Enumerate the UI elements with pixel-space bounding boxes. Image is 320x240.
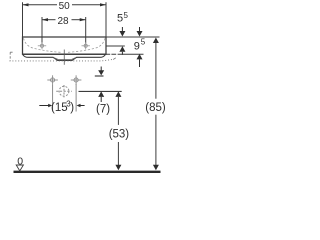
dimension 50 line — [23, 4, 107, 6]
svg-text:): ) — [70, 102, 74, 114]
extension line right (50) — [105, 2, 107, 37]
dimension (15.3) left arrow — [39, 105, 48, 107]
extension line right (28) — [85, 17, 87, 44]
dimension 9.5: down arrow — [139, 27, 141, 31]
svg-text:5: 5 — [117, 13, 123, 25]
dimension (85) top arrow — [153, 38, 159, 44]
washbasin outline (front view) — [23, 37, 107, 54]
rim reference line extended right — [106, 36, 160, 38]
dimension (53) line — [117, 97, 119, 125]
water supply cross right — [71, 75, 82, 85]
svg-text:9: 9 — [134, 41, 140, 53]
floor line — [14, 171, 161, 173]
basin underside inner line at drain dip — [54, 58, 76, 60]
svg-text:0: 0 — [17, 155, 23, 167]
water supply extension right — [75, 84, 77, 112]
zero level triangle — [16, 165, 23, 171]
hidden bowl contour left (dashed) — [24, 38, 63, 52]
extension line left (50) — [22, 2, 24, 37]
dimension (7): bottom up arrow — [98, 91, 104, 97]
svg-text:(85): (85) — [145, 102, 166, 114]
svg-text:(7): (7) — [96, 103, 110, 115]
dimension (53) bottom arrow — [115, 165, 121, 171]
water supply extension left — [52, 85, 54, 112]
tap hole cross left — [38, 42, 46, 49]
svg-text:5: 5 — [141, 38, 146, 47]
dimension 28 arrowheads — [42, 18, 86, 21]
washbasin bottom edge thick — [23, 53, 107, 55]
dimension (85) line — [155, 43, 157, 99]
drain centerline — [63, 50, 65, 65]
dimension (15.3) right arrow — [80, 105, 85, 107]
dimension (7): top down arrow — [100, 67, 102, 73]
dimension 5.5: down arrow — [121, 27, 123, 31]
dimension 9.5: up arrow — [137, 54, 143, 60]
svg-text:5: 5 — [124, 11, 129, 20]
hidden bowl contour right (dashed) — [67, 38, 106, 52]
extension line left (28) — [41, 17, 43, 44]
dimension (85) bottom arrow — [153, 165, 159, 171]
svg-text:(15: (15 — [51, 102, 68, 114]
bottom reference line extended right — [106, 53, 144, 55]
reference line 5.5 below rim — [106, 45, 125, 47]
dotted end tick — [113, 58, 116, 60]
tap hole cross right — [82, 42, 90, 49]
drain connection cross (dashed circle) — [56, 85, 72, 97]
dimension (53) top arrow — [115, 91, 121, 97]
water supply cross left — [47, 75, 58, 85]
reference line y=91 — [79, 90, 122, 92]
svg-text:28: 28 — [58, 16, 70, 27]
dotted hidden line under basin — [10, 59, 114, 61]
basin underside profile — [23, 55, 106, 61]
dimension 28 line — [42, 19, 86, 21]
dashed corner left — [10, 51, 14, 53]
dimension 50 arrowheads — [23, 3, 107, 6]
svg-text:(53): (53) — [109, 129, 130, 141]
dimension 5.5: up arrow — [119, 46, 125, 52]
short reference line y=75.8 — [95, 75, 104, 77]
svg-text:50: 50 — [59, 1, 71, 12]
